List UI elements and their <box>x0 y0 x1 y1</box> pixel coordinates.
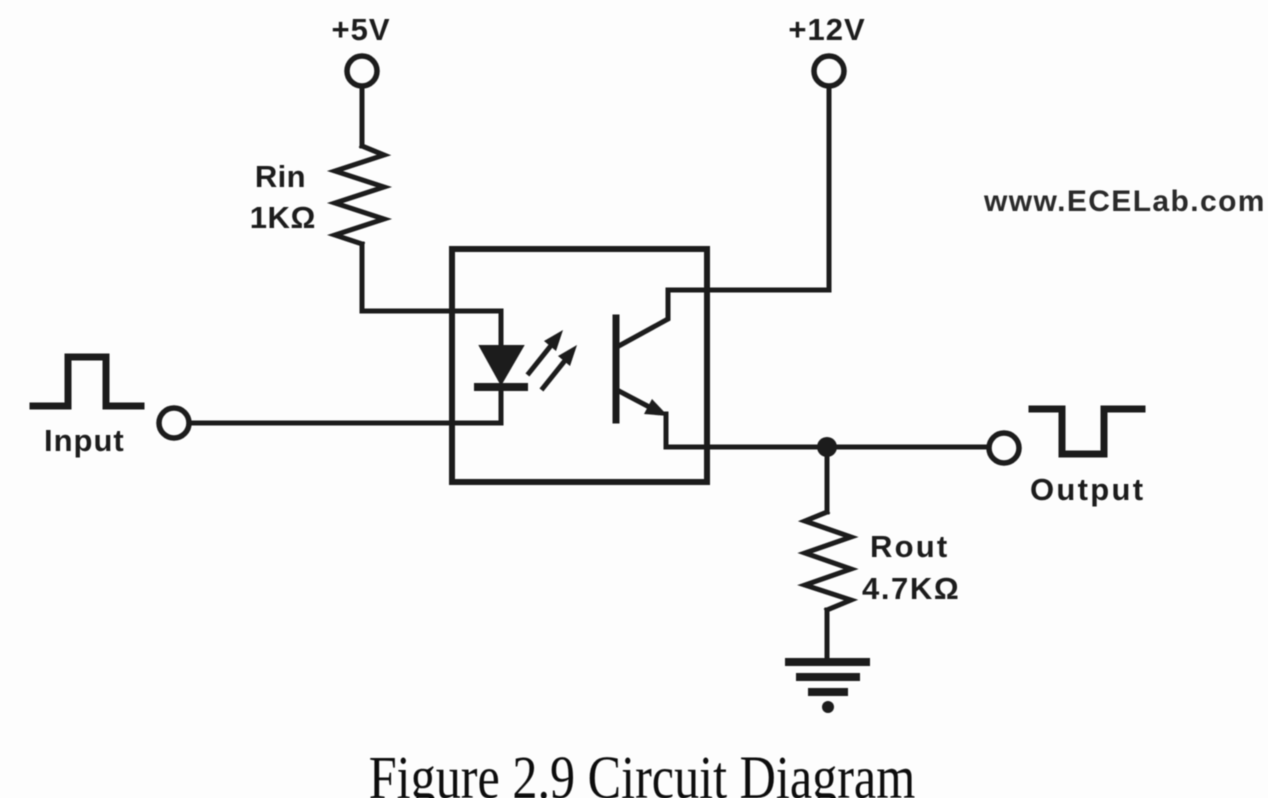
input waveform symbol <box>33 357 141 406</box>
phototransistor Q1 emitter <box>617 390 655 410</box>
wire Rout to ground <box>825 610 830 659</box>
ground <box>789 662 866 692</box>
wire node to output terminal <box>827 445 988 450</box>
output waveform symbol <box>1032 409 1142 454</box>
wire +12V to collector <box>668 86 829 290</box>
wire node to Rout <box>825 447 830 512</box>
svg-text:+5V: +5V <box>331 12 390 47</box>
light arrow 1 <box>529 330 563 373</box>
svg-text:4.7KΩ: 4.7KΩ <box>862 571 960 606</box>
output terminal <box>989 433 1019 463</box>
phototransistor Q1 collector <box>617 290 668 347</box>
LED D1 cathode bar <box>478 383 524 391</box>
node junction output/Rout <box>817 437 837 457</box>
svg-text:+12V: +12V <box>788 12 865 47</box>
LED D1 anode lead <box>499 311 504 348</box>
wire emitter to output node <box>666 445 827 450</box>
input terminal <box>159 408 189 438</box>
wire +5V terminal to Rin <box>360 86 365 146</box>
+5V terminal <box>347 56 377 86</box>
wire Rin to LED anode <box>362 244 501 311</box>
LED D1 triangle <box>480 346 523 384</box>
svg-text:Figure 2.9 Circuit Diagram: Figure 2.9 Circuit Diagram <box>369 744 916 798</box>
+12V terminal <box>814 56 844 86</box>
svg-text:Rin: Rin <box>255 159 306 194</box>
svg-text:Output: Output <box>1030 472 1145 507</box>
svg-text:Rout: Rout <box>870 529 949 564</box>
resistor Rout <box>805 512 851 610</box>
phototransistor Q1 base bar <box>613 318 620 420</box>
wire input terminal to LED cathode <box>189 421 501 426</box>
light arrow 2 <box>543 345 577 388</box>
optocoupler U1 body <box>452 249 707 482</box>
svg-text:1KΩ: 1KΩ <box>250 200 316 235</box>
svg-text:Input: Input <box>44 423 125 458</box>
LED D1 cathode lead <box>499 390 504 423</box>
resistor Rin <box>335 146 384 244</box>
svg-text:www.ECELab.com: www.ECELab.com <box>983 185 1266 218</box>
